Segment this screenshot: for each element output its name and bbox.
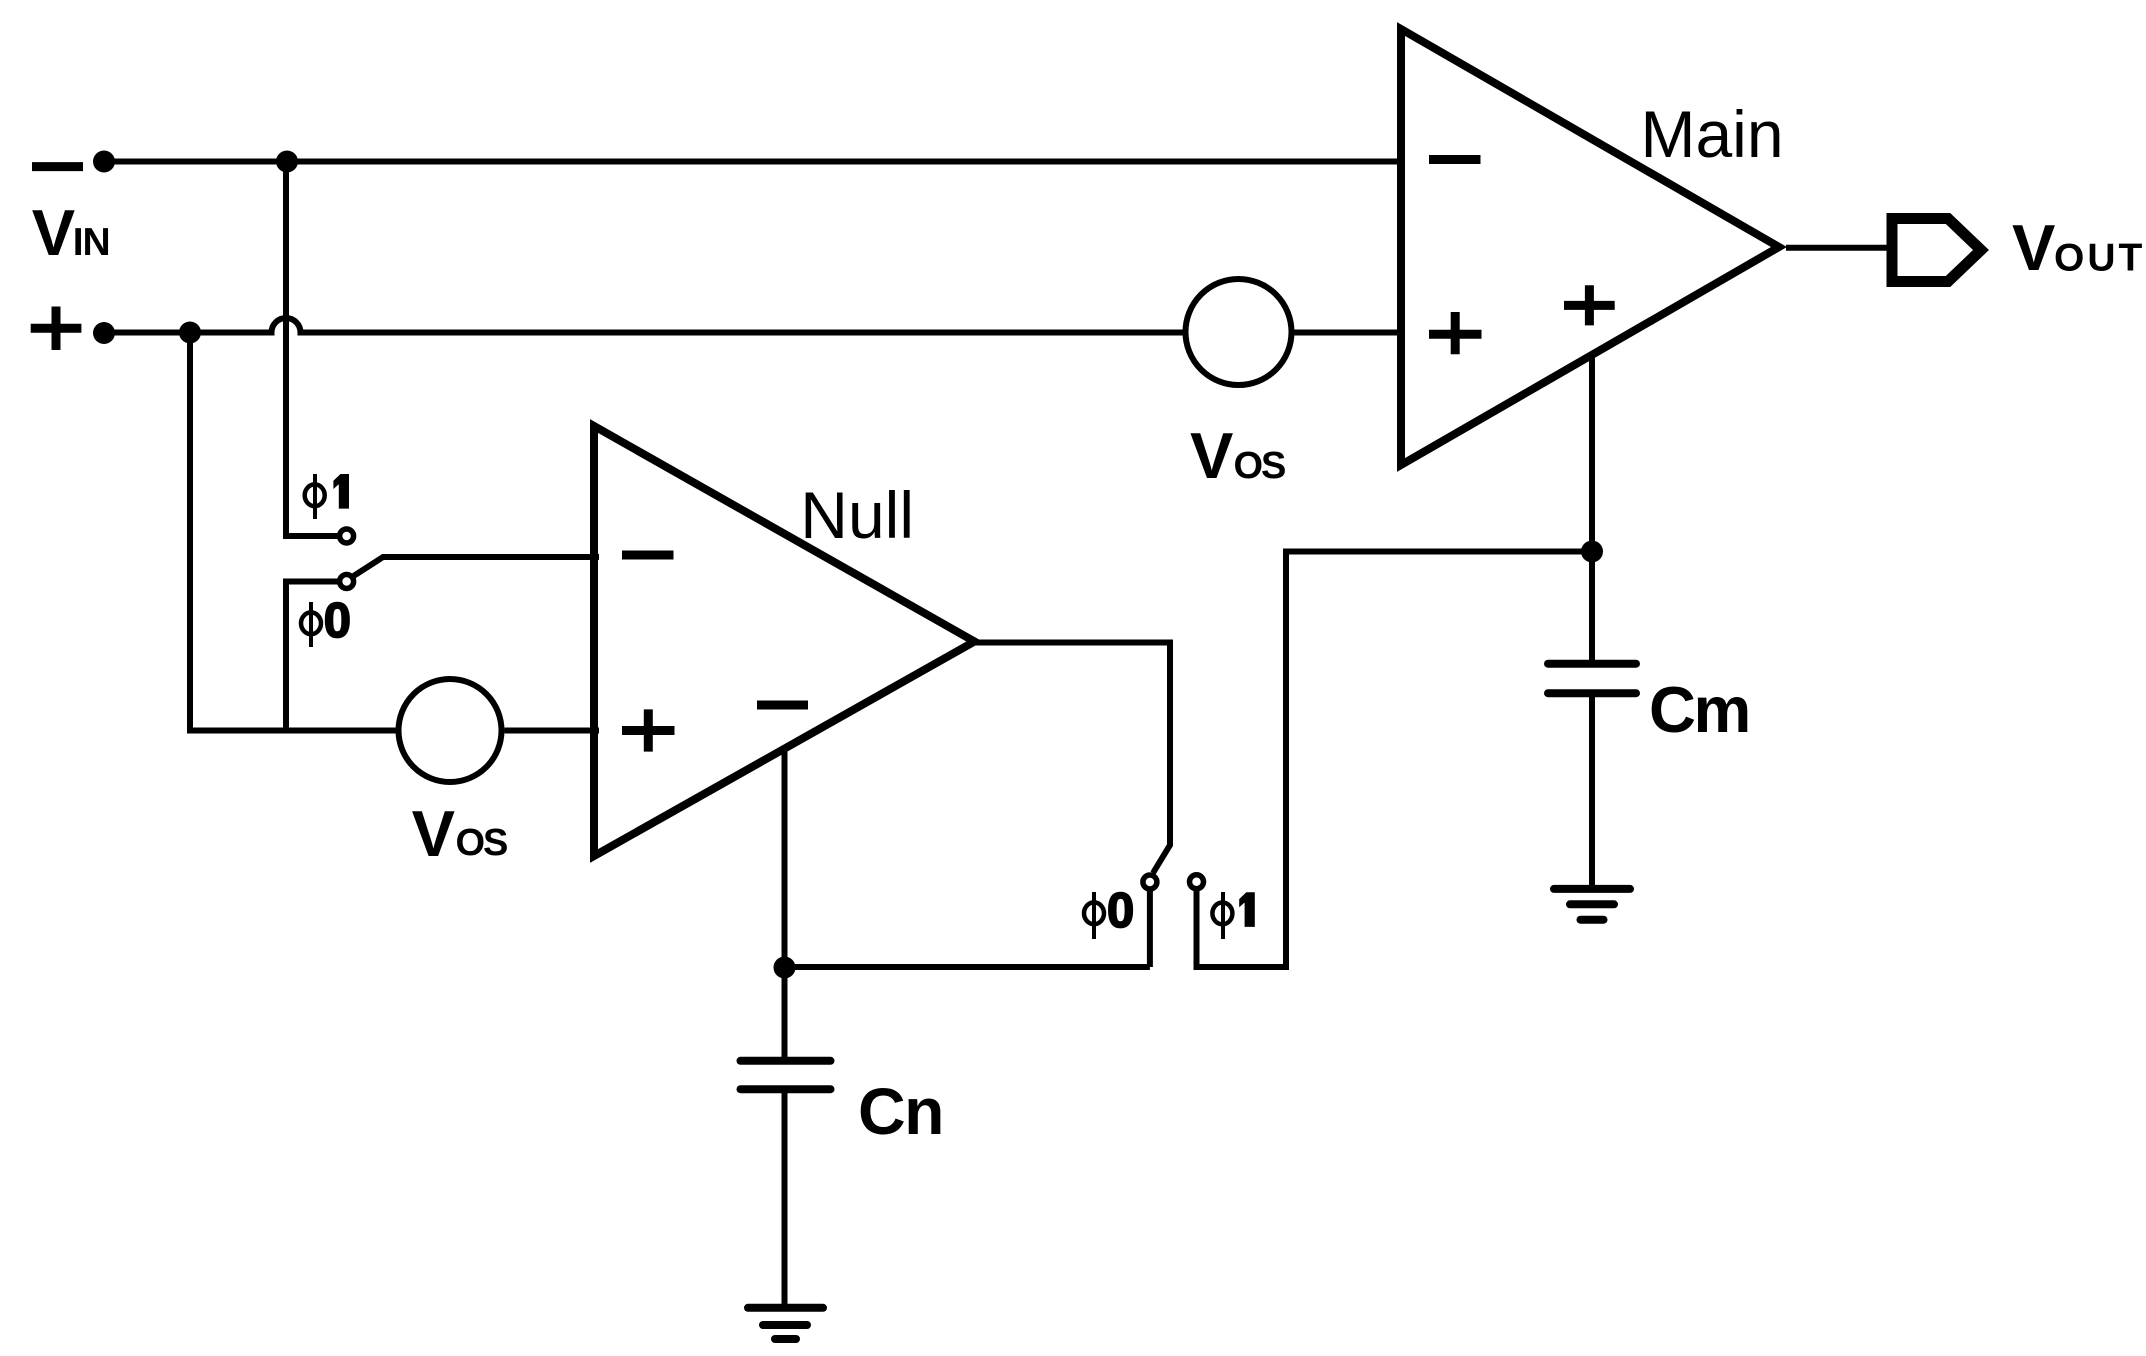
wire below phi0 feedback contact [1147, 889, 1153, 967]
switch contact phi0 (feedback) [1143, 875, 1157, 889]
svg-text:Cn: Cn [858, 1074, 943, 1148]
node minus branch [276, 151, 298, 173]
node plus branch [179, 322, 201, 344]
wire Vos to Main noninverting input [1291, 330, 1401, 336]
svg-text:Cm: Cm [1649, 673, 1749, 746]
wire Null auxiliary output down [782, 749, 788, 967]
svg-text:V: V [412, 797, 455, 870]
node Cm junction [1581, 541, 1603, 563]
switch contact phi1 (feedback) [1190, 875, 1204, 889]
wire phi1 feedback contact to Cm node [1197, 552, 1593, 968]
switch contact phi1 [340, 529, 354, 543]
wire minus branch down to phi1 switch contact [286, 162, 340, 537]
label phi0 (feedback switch) [1084, 884, 1134, 939]
input terminal plus dot [93, 322, 115, 344]
wire phi0 contact to plus net [286, 582, 340, 731]
label V_OS (Main) [1190, 419, 1285, 492]
label phi1 (input switch) [305, 474, 349, 519]
Null inverted output label [757, 701, 808, 710]
input terminal plus sign [31, 307, 82, 351]
op-amp Null [594, 426, 975, 856]
Main auxiliary plus label [1564, 285, 1615, 325]
capacitor Cm [1548, 664, 1636, 694]
wire Cn to ground [782, 1091, 788, 1304]
wire minus input to Main inverting input [104, 159, 1401, 165]
ground (Cn) [748, 1308, 823, 1339]
label phi0 (input switch) [301, 594, 351, 648]
label V_IN [32, 196, 110, 269]
svg-text:Null: Null [800, 478, 914, 552]
svg-text:V: V [32, 196, 75, 269]
label V_OS (Null) [412, 797, 507, 870]
svg-text:OS: OS [1234, 445, 1286, 487]
svg-text:V: V [2012, 211, 2055, 284]
svg-text:V: V [1190, 419, 1233, 492]
svg-text:OUT: OUT [2054, 237, 2145, 280]
input terminal minus dot [93, 151, 115, 173]
Null noninverting input label [622, 709, 675, 751]
capacitor Cn [741, 1061, 831, 1089]
svg-text:0: 0 [324, 594, 351, 648]
wire plus branch down to Vos(null) [190, 333, 398, 731]
Vos source (Main) [1186, 279, 1292, 385]
Vos source (Null) [399, 679, 502, 782]
label phi1 (feedback switch) [1212, 892, 1254, 939]
wire plus input with crossover hop [104, 318, 1188, 333]
svg-text:OS: OS [456, 822, 508, 864]
output port V_OUT [1892, 219, 1981, 282]
Null inverting input label [622, 551, 674, 560]
wire Main output [1786, 245, 1891, 251]
ground (Cm) [1554, 889, 1630, 920]
op-amp Main [1401, 29, 1779, 465]
wire Cm to ground [1589, 695, 1595, 885]
node Cn junction [774, 957, 796, 979]
label V_OUT [2012, 211, 2145, 284]
wire Cn junction to phi0 contact [785, 964, 1150, 970]
svg-text:IN: IN [73, 221, 110, 264]
Main noninverting input label [1429, 312, 1482, 354]
wire Main aux pin down to Cm [1589, 353, 1595, 660]
wire Vos to Null noninverting input [505, 728, 600, 734]
wire junction down to Cn [782, 967, 788, 1058]
Main inverting input label [1429, 155, 1481, 164]
input terminal minus sign [32, 162, 83, 171]
switch arm to Null inverting input [352, 557, 599, 577]
svg-text:Main: Main [1641, 97, 1784, 171]
wire Null output to feedback switch [976, 643, 1170, 874]
switch contact phi0 [340, 575, 354, 589]
svg-text:0: 0 [1107, 884, 1134, 938]
